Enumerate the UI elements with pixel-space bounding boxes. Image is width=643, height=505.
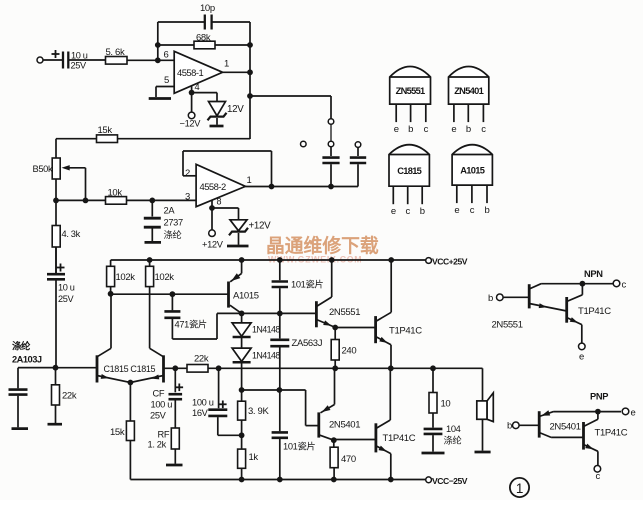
svg-text:1: 1 (247, 175, 252, 186)
svg-text:5. 6k: 5. 6k (106, 47, 125, 58)
svg-text:b: b (485, 205, 490, 216)
svg-text:4: 4 (195, 82, 200, 92)
svg-text:c: c (622, 279, 627, 290)
svg-text:T1P41C: T1P41C (383, 433, 416, 444)
svg-text:b: b (466, 124, 471, 135)
svg-text:3. 9K: 3. 9K (248, 406, 269, 417)
svg-text:102k: 102k (155, 272, 175, 283)
svg-text:e: e (631, 407, 636, 418)
svg-text:+12V: +12V (202, 240, 224, 250)
svg-text:1: 1 (516, 481, 523, 496)
svg-text:10p: 10p (200, 3, 215, 14)
svg-text:1: 1 (224, 59, 229, 70)
svg-text:4558-2: 4558-2 (200, 181, 226, 192)
svg-text:CF: CF (153, 389, 165, 399)
svg-text:2: 2 (185, 168, 190, 179)
svg-text:T1P41C: T1P41C (578, 306, 611, 317)
svg-text:PNP: PNP (590, 392, 608, 402)
svg-text:2A: 2A (164, 206, 176, 216)
svg-text:68k: 68k (196, 33, 211, 44)
svg-text:e: e (454, 205, 459, 216)
svg-text:3: 3 (185, 192, 190, 203)
svg-text:RF: RF (158, 430, 170, 440)
svg-text:2737: 2737 (164, 218, 183, 228)
svg-text:104: 104 (446, 424, 461, 434)
svg-text:1k: 1k (249, 452, 259, 463)
svg-text:6: 6 (164, 50, 169, 61)
svg-text:2N5551: 2N5551 (329, 307, 360, 318)
svg-text:T1P41C: T1P41C (595, 428, 628, 439)
svg-text:4. 3k: 4. 3k (62, 229, 81, 239)
svg-text:c: c (596, 471, 601, 482)
svg-text:10 u: 10 u (58, 283, 75, 293)
svg-text:c: c (424, 124, 429, 135)
svg-text:15k: 15k (98, 125, 113, 136)
svg-text:A1015: A1015 (460, 165, 484, 175)
svg-text:b: b (420, 206, 425, 217)
svg-text:22k: 22k (194, 354, 209, 365)
svg-text:VCC+25V: VCC+25V (432, 257, 468, 267)
svg-text:晶通维修下载: 晶通维修下载 (266, 234, 379, 256)
svg-text:+12V: +12V (249, 221, 272, 232)
svg-text:100 u: 100 u (192, 398, 214, 408)
svg-text:A1015: A1015 (233, 291, 259, 302)
svg-text:101瓷片: 101瓷片 (291, 279, 323, 290)
svg-text:25V: 25V (71, 61, 88, 71)
svg-text:涤纶: 涤纶 (12, 341, 31, 352)
svg-text:25V: 25V (150, 411, 167, 421)
svg-text:e: e (579, 352, 584, 363)
svg-text:VCC−25V: VCC−25V (432, 476, 468, 486)
svg-text:2N5551: 2N5551 (492, 320, 523, 331)
svg-text:240: 240 (342, 346, 357, 357)
svg-text:1N4148: 1N4148 (252, 325, 280, 335)
svg-text:b: b (408, 124, 413, 135)
svg-text:B50k: B50k (33, 164, 53, 174)
svg-text:1N4148: 1N4148 (252, 351, 280, 361)
svg-text:e: e (451, 124, 456, 135)
svg-text:5: 5 (164, 75, 169, 86)
svg-text:10 u: 10 u (71, 51, 88, 61)
svg-text:ZA563J: ZA563J (292, 338, 323, 349)
svg-text:C1815: C1815 (397, 166, 421, 176)
svg-text:e: e (391, 206, 396, 217)
svg-text:10: 10 (441, 399, 451, 410)
svg-text:c: c (470, 205, 475, 216)
svg-text:涤纶: 涤纶 (444, 435, 462, 446)
svg-text:4558-1: 4558-1 (177, 67, 203, 78)
svg-text:b: b (507, 421, 512, 432)
svg-text:10k: 10k (108, 188, 123, 199)
svg-text:涤纶: 涤纶 (164, 229, 182, 240)
svg-text:c: c (405, 206, 410, 217)
svg-text:16V: 16V (192, 408, 209, 418)
svg-text:8: 8 (217, 197, 222, 207)
svg-text:12V: 12V (227, 104, 244, 115)
svg-text:470: 470 (341, 454, 356, 465)
svg-text:T1P41C: T1P41C (389, 326, 422, 337)
svg-text:2N5401: 2N5401 (329, 419, 360, 430)
svg-text:ZN5551: ZN5551 (396, 86, 425, 96)
svg-text:22k: 22k (62, 391, 77, 402)
svg-text:101瓷片: 101瓷片 (283, 441, 315, 452)
svg-text:2N5401: 2N5401 (550, 422, 581, 433)
svg-text:1. 2k: 1. 2k (148, 440, 167, 450)
svg-text:NPN: NPN (584, 269, 603, 279)
svg-text:c: c (481, 124, 486, 135)
svg-text:ZN5401: ZN5401 (454, 86, 483, 96)
svg-text:15k: 15k (110, 427, 125, 438)
svg-text:2A103J: 2A103J (12, 355, 42, 365)
svg-text:e: e (394, 124, 399, 135)
svg-text:−12V: −12V (180, 119, 202, 129)
svg-text:C1815 C1815: C1815 C1815 (104, 364, 156, 374)
svg-text:b: b (488, 293, 493, 304)
svg-text:25V: 25V (58, 294, 75, 304)
svg-text:100 u: 100 u (151, 400, 173, 410)
svg-text:102k: 102k (116, 272, 136, 283)
svg-text:471瓷片: 471瓷片 (175, 319, 207, 330)
